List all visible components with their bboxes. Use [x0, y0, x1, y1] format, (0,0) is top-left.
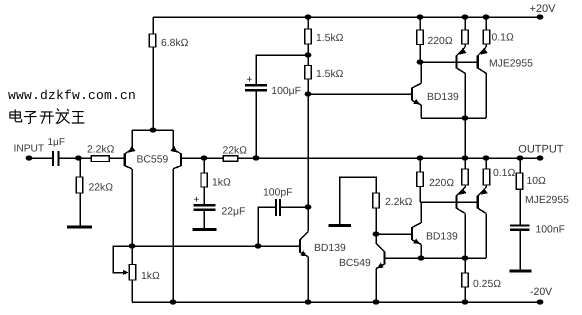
terminal +20V	[537, 14, 544, 19]
node 0.25R top	[462, 255, 469, 260]
ground zobel	[510, 269, 532, 272]
node BC559 emitters	[150, 127, 157, 132]
wire bootstrap tap to 100uF top	[256, 55, 308, 85]
wire 1.5k chain to VAS collector node	[307, 79, 309, 207]
capacitor C4 100pF compensation	[275, 199, 277, 216]
node BC549 emitter / -20V	[373, 299, 380, 304]
transistor MJE2955 lower right (PNP)	[477, 196, 479, 209]
wire upper output base line	[420, 61, 478, 63]
wire input rail segment left of 1uF	[29, 157, 53, 159]
wire node at 1.5k junction to upper BD139 base	[308, 93, 411, 95]
capacitor C3 22uF feedback	[194, 204, 216, 206]
node BC549 collector	[373, 231, 380, 236]
resistor 2.2k input	[91, 156, 109, 162]
wire 1.5k chain top	[307, 17, 309, 29]
wire 0.25R bottom lead	[464, 287, 466, 302]
svg-text:1μF: 1μF	[48, 137, 65, 148]
node rail / 220R lower	[417, 155, 424, 160]
svg-text:BC549: BC549	[339, 258, 371, 269]
svg-text:100pF: 100pF	[263, 188, 292, 199]
resistor 220R lower	[417, 172, 424, 187]
svg-text:6.8kΩ: 6.8kΩ	[161, 38, 189, 49]
node top rail / 0.1R right	[483, 14, 490, 19]
wire lower 0.1R right leads	[485, 158, 487, 169]
svg-text:0.1Ω: 0.1Ω	[493, 168, 515, 179]
wire 6.8k column upper	[152, 17, 154, 34]
svg-text:MJE2955: MJE2955	[525, 195, 569, 206]
resistor 220R upper	[417, 30, 424, 45]
transistor BD139 upper driver (NPN)	[411, 88, 413, 101]
svg-text:OUTPUT: OUTPUT	[518, 144, 564, 156]
wire BC559 emitter tie bar	[132, 129, 173, 131]
wire mid ground bracket	[340, 177, 377, 224]
ground mid bracket	[328, 224, 351, 227]
resistor 0.25R	[462, 273, 469, 287]
capacitor C2 100uF bootstrap	[245, 84, 267, 86]
wire 22k input bias top	[79, 158, 81, 177]
svg-text:BD139: BD139	[426, 232, 458, 243]
svg-text:1kΩ: 1kΩ	[212, 178, 231, 189]
resistor 22k input bias	[76, 177, 83, 193]
svg-text:BD139: BD139	[314, 243, 346, 254]
transistor MJE2955 upper left (PNP)	[455, 55, 457, 68]
wire pot top lead	[131, 246, 133, 265]
wire 100nF to ground	[519, 231, 521, 270]
svg-text:22kΩ: 22kΩ	[223, 146, 248, 157]
svg-text:10Ω: 10Ω	[527, 176, 547, 187]
resistor 1.5k upper	[305, 29, 312, 44]
wire main output rail	[181, 157, 540, 159]
wire upper collectors join line	[421, 117, 486, 119]
wire pot wiper loop	[113, 246, 132, 273]
svg-text:100nF: 100nF	[536, 225, 565, 236]
svg-text:MJE2955: MJE2955	[489, 59, 533, 70]
title text dianzikaifawang (drawn strokes)	[10, 109, 85, 124]
wire 1k to 22uF	[203, 187, 205, 205]
node VAS emitter / -20V	[305, 299, 312, 304]
wire upper 0.1R left leads	[464, 17, 466, 30]
terminal -20V	[537, 299, 544, 304]
svg-text:22kΩ: 22kΩ	[89, 183, 114, 194]
node upper base drive	[417, 59, 424, 64]
wire 220R upper top	[419, 17, 421, 30]
svg-text:BC559: BC559	[137, 154, 169, 165]
svg-text:100μF: 100μF	[271, 86, 301, 97]
svg-text:2.2kΩ: 2.2kΩ	[87, 145, 115, 156]
node lower emitter junction	[418, 255, 425, 260]
svg-text:BD139: BD139	[427, 92, 459, 103]
transistor MJE2955 upper right (PNP)	[477, 55, 479, 68]
svg-text:220Ω: 220Ω	[429, 178, 454, 189]
wire 6.8k column lower to BC559 emitters	[152, 47, 154, 130]
wire 2.2k right column to junction	[375, 208, 377, 234]
node top rail / 0.1R left	[462, 14, 469, 19]
wire 220R lower bottom	[419, 187, 421, 203]
wire lower output base line	[420, 201, 478, 203]
capacitor C5 100nF zobel	[510, 224, 530, 226]
svg-text:1.5kΩ: 1.5kΩ	[316, 69, 344, 80]
svg-text:1kΩ: 1kΩ	[141, 271, 160, 282]
transistor MJE2955 lower left (PNP)	[455, 196, 457, 209]
wire junction to lower BD139 base	[376, 233, 411, 235]
wire 1k feedback column	[203, 158, 205, 173]
terminal input	[26, 155, 33, 160]
wire 100pF left leg	[258, 207, 275, 246]
resistor 0.1R upper right	[483, 30, 490, 44]
resistor 10R zobel	[516, 173, 523, 189]
wire 100uF bottom to output rail	[255, 90, 257, 158]
wire upper stage to output rail	[464, 118, 466, 158]
terminal output	[537, 155, 544, 160]
wire 220R upper bottom	[419, 45, 421, 62]
resistor 2.2k right	[373, 193, 380, 208]
potentiometer 1k offset	[129, 265, 135, 281]
svg-text:+: +	[194, 195, 200, 206]
wire between 1.5k resistors	[307, 44, 309, 66]
resistor 6.8k	[149, 34, 156, 47]
wire upper 0.1R right leads	[485, 17, 487, 30]
pot wiper arrow	[123, 270, 129, 275]
node BC559 collector / -20V	[170, 299, 177, 304]
capacitor C1 1uF input	[52, 151, 54, 166]
wire +20V top rail	[153, 16, 540, 18]
resistor 0.1R lower left	[462, 169, 469, 185]
wire pot bottom to -20V rail	[131, 280, 133, 302]
transistor BC559 right half (PNP)	[180, 154, 182, 167]
node input / 22k	[75, 155, 82, 160]
resistor 1k feedback	[201, 173, 207, 187]
resistor 0.1R upper left	[462, 30, 469, 44]
wire VAS base line	[132, 245, 300, 247]
transistor BC559 left half (PNP)	[124, 154, 126, 167]
node VAS base / pot	[129, 243, 136, 248]
node 0.25R / -20V	[462, 299, 469, 304]
wire BD139 VAS emitter to rail	[307, 261, 309, 302]
node 100pF / VAS base	[255, 243, 262, 248]
node 100uF / rail	[253, 155, 260, 160]
wire 220R lower top	[419, 158, 421, 172]
svg-text:220Ω: 220Ω	[428, 36, 453, 47]
wire 0.25R top lead	[464, 258, 466, 273]
node top rail / 1.5k	[305, 14, 312, 19]
svg-text:0.25Ω: 0.25Ω	[473, 279, 501, 290]
wire 22uF to ground	[203, 211, 205, 228]
transistor BD139 VAS (NPN)	[299, 240, 301, 253]
node VAS collector	[305, 204, 312, 209]
transistor BD139 lower driver (NPN)	[411, 227, 413, 240]
resistor 22k feedback	[223, 156, 237, 162]
wire 100pF right leg	[280, 206, 308, 208]
svg-text:+20V: +20V	[530, 3, 557, 15]
ground 22uF	[193, 228, 217, 231]
wire BC549 base line	[384, 257, 421, 259]
resistor 0.1R lower right	[483, 169, 490, 185]
svg-text:2.2kΩ: 2.2kΩ	[385, 197, 413, 208]
wire 10R to 100nF	[519, 189, 521, 224]
node bootstrap tap	[305, 52, 312, 57]
svg-text:-20V: -20V	[530, 286, 552, 298]
node driver base feed	[305, 91, 312, 96]
svg-text:INPUT: INPUT	[14, 144, 45, 155]
transistor BC549 (NPN mirrored)	[383, 252, 385, 265]
node top rail / 220R	[417, 14, 424, 19]
wire lower 0.1R left leads	[464, 158, 466, 169]
svg-text:www.dzkfw.com.cn: www.dzkfw.com.cn	[8, 88, 136, 103]
svg-text:22μF: 22μF	[222, 207, 246, 218]
resistor 1.5k lower	[305, 66, 312, 80]
wire 22k input bias to ground	[79, 193, 81, 227]
svg-text:1.5kΩ: 1.5kΩ	[316, 33, 344, 44]
wire 1uF to BC559 left base	[59, 157, 125, 159]
node rail / 0.1R lower right	[483, 155, 490, 160]
wire zobel top lead	[519, 158, 521, 173]
ground input bias	[67, 226, 92, 229]
wire lower emitter junction line	[421, 257, 486, 259]
node upper collectors	[462, 115, 469, 120]
node rail / output stage	[462, 155, 469, 160]
node rail / zobel	[517, 155, 524, 160]
node feedback	[201, 155, 208, 160]
svg-text:+: +	[247, 75, 253, 86]
wire -20V bottom rail	[132, 301, 540, 303]
svg-text:0.1Ω: 0.1Ω	[492, 33, 514, 44]
